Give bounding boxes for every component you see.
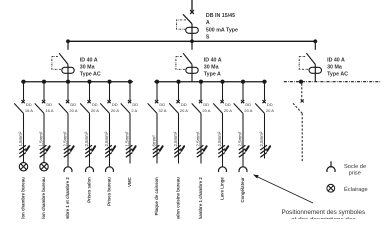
- breaker C1 eclairage 1 blade: [14, 103, 23, 113]
- socket symbol (socle de prise) C11 congelateur: [239, 167, 247, 172]
- RCD ID1 blade: [59, 53, 68, 64]
- main breaker Q0 contact cross: [190, 10, 194, 14]
- breaker C6 VMC stub: [129, 82, 131, 101]
- cable arrow mark C8 prises cuisine: [181, 146, 184, 151]
- svg-text:2,5mm²: 2,5mm²: [217, 131, 222, 146]
- breaker C8 prises cuisine blade: [169, 103, 178, 113]
- cable conductor slashes C10 lave linge: [218, 145, 225, 157]
- svg-text:DD20 A: DD20 A: [111, 102, 119, 113]
- svg-text:Prises salon: Prises salon: [87, 177, 92, 203]
- cable arrow mark C12 reserve: [267, 146, 270, 151]
- svg-text:Éclairage: Éclairage: [344, 186, 368, 193]
- cable conductor slashes C12 reserve: [260, 145, 267, 157]
- svg-text:salon chambre bureau: salon chambre bureau: [41, 177, 46, 219]
- socket symbol (socle de prise) C10 lave linge: [219, 167, 227, 172]
- wire C6 VMC: [129, 113, 131, 163]
- cable arrow mark C3 prises chambres: [71, 146, 74, 151]
- svg-text:ID 40 A30 MaType A: ID 40 A30 MaType A: [204, 57, 222, 77]
- svg-text:2,5mm²: 2,5mm²: [104, 131, 109, 146]
- node on main bus x=315.3: [313, 39, 317, 43]
- svg-text:Lave Linge: Lave Linge: [220, 177, 225, 200]
- breaker C12 reserve stub: [264, 82, 266, 101]
- svg-text:DD20 A: DD20 A: [244, 102, 252, 113]
- RCD ID3 test box: [299, 57, 309, 70]
- cable conductor slashes C6 VMC: [126, 145, 133, 157]
- svg-text:2,5mm²: 2,5mm²: [196, 131, 201, 146]
- RCD ID1 wire: [67, 64, 69, 81]
- breaker C12 reserve contact cross: [263, 100, 266, 103]
- svg-text:DD20 A: DD20 A: [202, 102, 210, 113]
- RCD ID1 toroid: [62, 67, 74, 73]
- svg-text:Plaque de cuisson: Plaque de cuisson: [154, 177, 159, 215]
- breaker C12 reserve blade: [255, 103, 264, 113]
- breaker C1 eclairage 1 contact cross: [22, 100, 25, 103]
- cable conductor slashes C3 prises chambres: [64, 145, 71, 157]
- future breaker contact cross: [301, 100, 304, 103]
- cable arrow mark C6 VMC: [133, 146, 136, 151]
- breaker C4 prises salon blade: [80, 103, 89, 113]
- node on sub bus x=23.5: [21, 80, 25, 84]
- RCD ID3 blade: [306, 53, 315, 64]
- RCD ID2 wire: [191, 64, 193, 81]
- legend socket symbol: [327, 161, 335, 172]
- node on main bus x=68: [66, 39, 70, 43]
- svg-text:1,5mm²: 1,5mm²: [125, 131, 130, 146]
- cable arrow mark C7 plaque de cuisson: [160, 146, 163, 151]
- svg-text:2,5mm²: 2,5mm²: [238, 131, 243, 146]
- legend lamp symbol: [327, 184, 335, 192]
- cable conductor slashes C1 eclairage 1: [19, 145, 26, 157]
- node on sub bus x=68: [66, 80, 70, 84]
- sub busbar group 1: [21, 81, 133, 83]
- wire: [191, 24, 193, 42]
- RCD ID2 stub: [191, 41, 193, 50]
- future sub busbar (dash-dot): [284, 81, 381, 83]
- svg-text:DD20 A: DD20 A: [180, 102, 188, 113]
- breaker C10 lave linge stub: [222, 82, 224, 101]
- future wire (dashed): [301, 113, 303, 161]
- socket symbol (socle de prise) C5 prises bureau: [106, 167, 114, 172]
- breaker C9 prises chambres contact cross: [199, 100, 202, 103]
- annotation arrow: [257, 177, 313, 203]
- breaker C4 prises salon stub: [89, 82, 91, 101]
- node on sub bus x=89.5: [87, 80, 91, 84]
- svg-text:2,5mm²: 2,5mm²: [63, 131, 68, 146]
- breaker C11 congelateur contact cross: [241, 100, 244, 103]
- svg-text:ID 40 A30 MaType AC: ID 40 A30 MaType AC: [327, 57, 348, 77]
- svg-text:chambre 1 chambre 2: chambre 1 chambre 2: [198, 177, 203, 219]
- breaker C11 congelateur blade: [234, 103, 243, 113]
- node on future bus: [299, 80, 303, 84]
- RCD ID2 blade: [183, 53, 192, 64]
- wire C7 plaque de cuisson: [156, 113, 158, 163]
- wire C2 eclairage 2: [43, 113, 45, 162]
- RCD ID2 toroid: [186, 67, 198, 73]
- node on sub bus x=243: [241, 80, 245, 84]
- breaker C3 prises chambres stub: [67, 82, 69, 101]
- wire C8 prises cuisine: [178, 113, 180, 163]
- svg-text:DD20 A: DD20 A: [69, 102, 77, 113]
- RCD ID3 stub: [314, 41, 316, 50]
- RCD ID3 toroid: [309, 67, 321, 73]
- wire C10 lave linge: [222, 113, 224, 166]
- svg-text:1,5mm²: 1,5mm²: [18, 131, 23, 146]
- cable arrow mark C5 prises bureau: [112, 146, 115, 151]
- node on sub bus x=178.5: [176, 80, 180, 84]
- node on sub bus x=222.5: [220, 80, 224, 84]
- cable conductor slashes C9 prises chambres: [197, 145, 204, 157]
- cable arrow mark C9 prises chambres: [204, 146, 207, 151]
- lamp symbol (eclairage) C1 eclairage 1: [19, 163, 27, 171]
- cable conductor slashes C8 prises cuisine: [174, 145, 181, 157]
- RCD ID1 test box: [52, 57, 62, 70]
- svg-text:VMC: VMC: [127, 176, 132, 187]
- breaker C3 prises chambres blade: [59, 103, 68, 113]
- cable conductor slashes C2 eclairage 2: [40, 145, 47, 157]
- breaker C9 prises chambres stub: [200, 82, 202, 101]
- svg-text:DD16 A: DD16 A: [45, 102, 53, 113]
- cable conductor slashes C4 prises salon: [85, 145, 92, 157]
- cable arrow mark C10 lave linge: [225, 146, 228, 151]
- future breaker stub (dashed): [301, 84, 303, 100]
- node on sub bus x=264.5: [262, 80, 266, 84]
- supply wire: [191, 0, 193, 11]
- svg-text:DD20 A: DD20 A: [266, 102, 274, 113]
- svg-text:DD32 A: DD32 A: [158, 102, 166, 113]
- breaker C2 eclairage 2 blade: [35, 103, 44, 113]
- svg-text:6mm²: 6mm²: [152, 135, 157, 147]
- main breaker Q0 toroid: [186, 27, 199, 33]
- breaker C7 plaque de cuisson stub: [156, 82, 158, 101]
- wire C5 prises bureau: [109, 113, 111, 166]
- lamp symbol (eclairage) C2 eclairage 2: [40, 163, 48, 171]
- svg-text:Prises bureau: Prises bureau: [107, 177, 112, 206]
- breaker C5 prises bureau blade: [100, 103, 109, 113]
- socket symbol (socle de prise) C4 prises salon: [86, 167, 94, 172]
- node on sub bus x=44: [42, 80, 46, 84]
- breaker C5 prises bureau stub: [109, 82, 111, 101]
- wire C11 congelateur: [242, 113, 244, 166]
- node on sub bus x=130: [128, 80, 132, 84]
- breaker C5 prises bureau contact cross: [108, 100, 111, 103]
- node on main bus x=192: [190, 39, 194, 43]
- breaker C2 eclairage 2 stub: [43, 82, 45, 101]
- wire C1 eclairage 1: [23, 113, 25, 162]
- breaker C10 lave linge blade: [213, 103, 222, 113]
- wire C12 reserve: [264, 113, 266, 158]
- breaker C6 VMC blade: [121, 103, 130, 113]
- cable arrow mark C2 eclairage 2: [47, 146, 50, 151]
- wire C9 prises chambres: [200, 113, 202, 163]
- main breaker Q0 test box: [177, 20, 186, 29]
- breaker C11 congelateur stub: [242, 82, 244, 101]
- svg-text:Socle deprise: Socle deprise: [344, 164, 366, 177]
- svg-text:DB IN 15/45A500 mA TypeS: DB IN 15/45A500 mA TypeS: [206, 13, 238, 40]
- svg-text:salon chambre bureau: salon chambre bureau: [21, 177, 26, 219]
- socket symbol (socle de prise) C3 prises chambres: [64, 167, 72, 172]
- breaker C8 prises cuisine contact cross: [177, 100, 180, 103]
- future breaker blade (dashed): [293, 103, 302, 113]
- svg-text:2,5mm²: 2,5mm²: [84, 131, 89, 146]
- node on sub bus x=201: [199, 80, 203, 84]
- svg-text:Congélateur: Congélateur: [240, 177, 245, 203]
- breaker C10 lave linge contact cross: [221, 100, 224, 103]
- breaker C3 prises chambres contact cross: [66, 100, 69, 103]
- breaker C4 prises salon contact cross: [88, 100, 91, 103]
- svg-text:DD16 A: DD16 A: [25, 102, 33, 113]
- svg-text:2,5mm²: 2,5mm²: [173, 131, 178, 146]
- breaker C9 prises chambres blade: [192, 103, 201, 113]
- breaker C1 eclairage 1 stub: [23, 82, 25, 101]
- svg-text:DD2 A: DD2 A: [131, 102, 138, 113]
- breaker C7 plaque de cuisson contact cross: [155, 100, 158, 103]
- cable conductor slashes C5 prises bureau: [105, 145, 112, 157]
- main breaker Q0 blade: [183, 14, 192, 23]
- svg-text:1,5mm²: 1,5mm²: [39, 131, 44, 146]
- sub busbar group 2: [154, 81, 266, 83]
- wire C3 prises chambres: [67, 113, 69, 166]
- cable conductor slashes C7 plaque de cuisson: [153, 145, 160, 157]
- node on sub bus x=109.5: [107, 80, 111, 84]
- cable arrow mark C1 eclairage 1: [26, 146, 29, 151]
- node on sub bus x=157: [155, 80, 159, 84]
- main busbar: [67, 40, 316, 42]
- RCD ID2 test box: [176, 57, 186, 70]
- svg-text:2,5mm²: 2,5mm²: [259, 131, 264, 146]
- svg-text:DD20 A: DD20 A: [224, 102, 232, 113]
- svg-text:salon cuisine bureau: salon cuisine bureau: [176, 177, 181, 219]
- breaker C2 eclairage 2 contact cross: [42, 100, 45, 103]
- svg-text:chambre 1 et chambre 2: chambre 1 et chambre 2: [65, 177, 70, 219]
- cable arrow mark C11 congelateur: [246, 146, 249, 151]
- svg-text:ID 40 A30 MaType AC: ID 40 A30 MaType AC: [80, 57, 101, 77]
- RCD ID1 stub: [67, 41, 69, 50]
- breaker C6 VMC contact cross: [128, 100, 131, 103]
- svg-text:DD20 A: DD20 A: [91, 102, 99, 113]
- wire C4 prises salon: [89, 113, 91, 166]
- cable conductor slashes C11 congelateur: [239, 145, 246, 157]
- cable arrow mark C4 prises salon: [92, 146, 95, 151]
- RCD ID3 wire: [314, 64, 316, 81]
- breaker C8 prises cuisine stub: [178, 82, 180, 101]
- svg-text:Positionnement des symboleset: Positionnement des symboleset des descri…: [281, 209, 365, 219]
- breaker C7 plaque de cuisson blade: [148, 103, 157, 113]
